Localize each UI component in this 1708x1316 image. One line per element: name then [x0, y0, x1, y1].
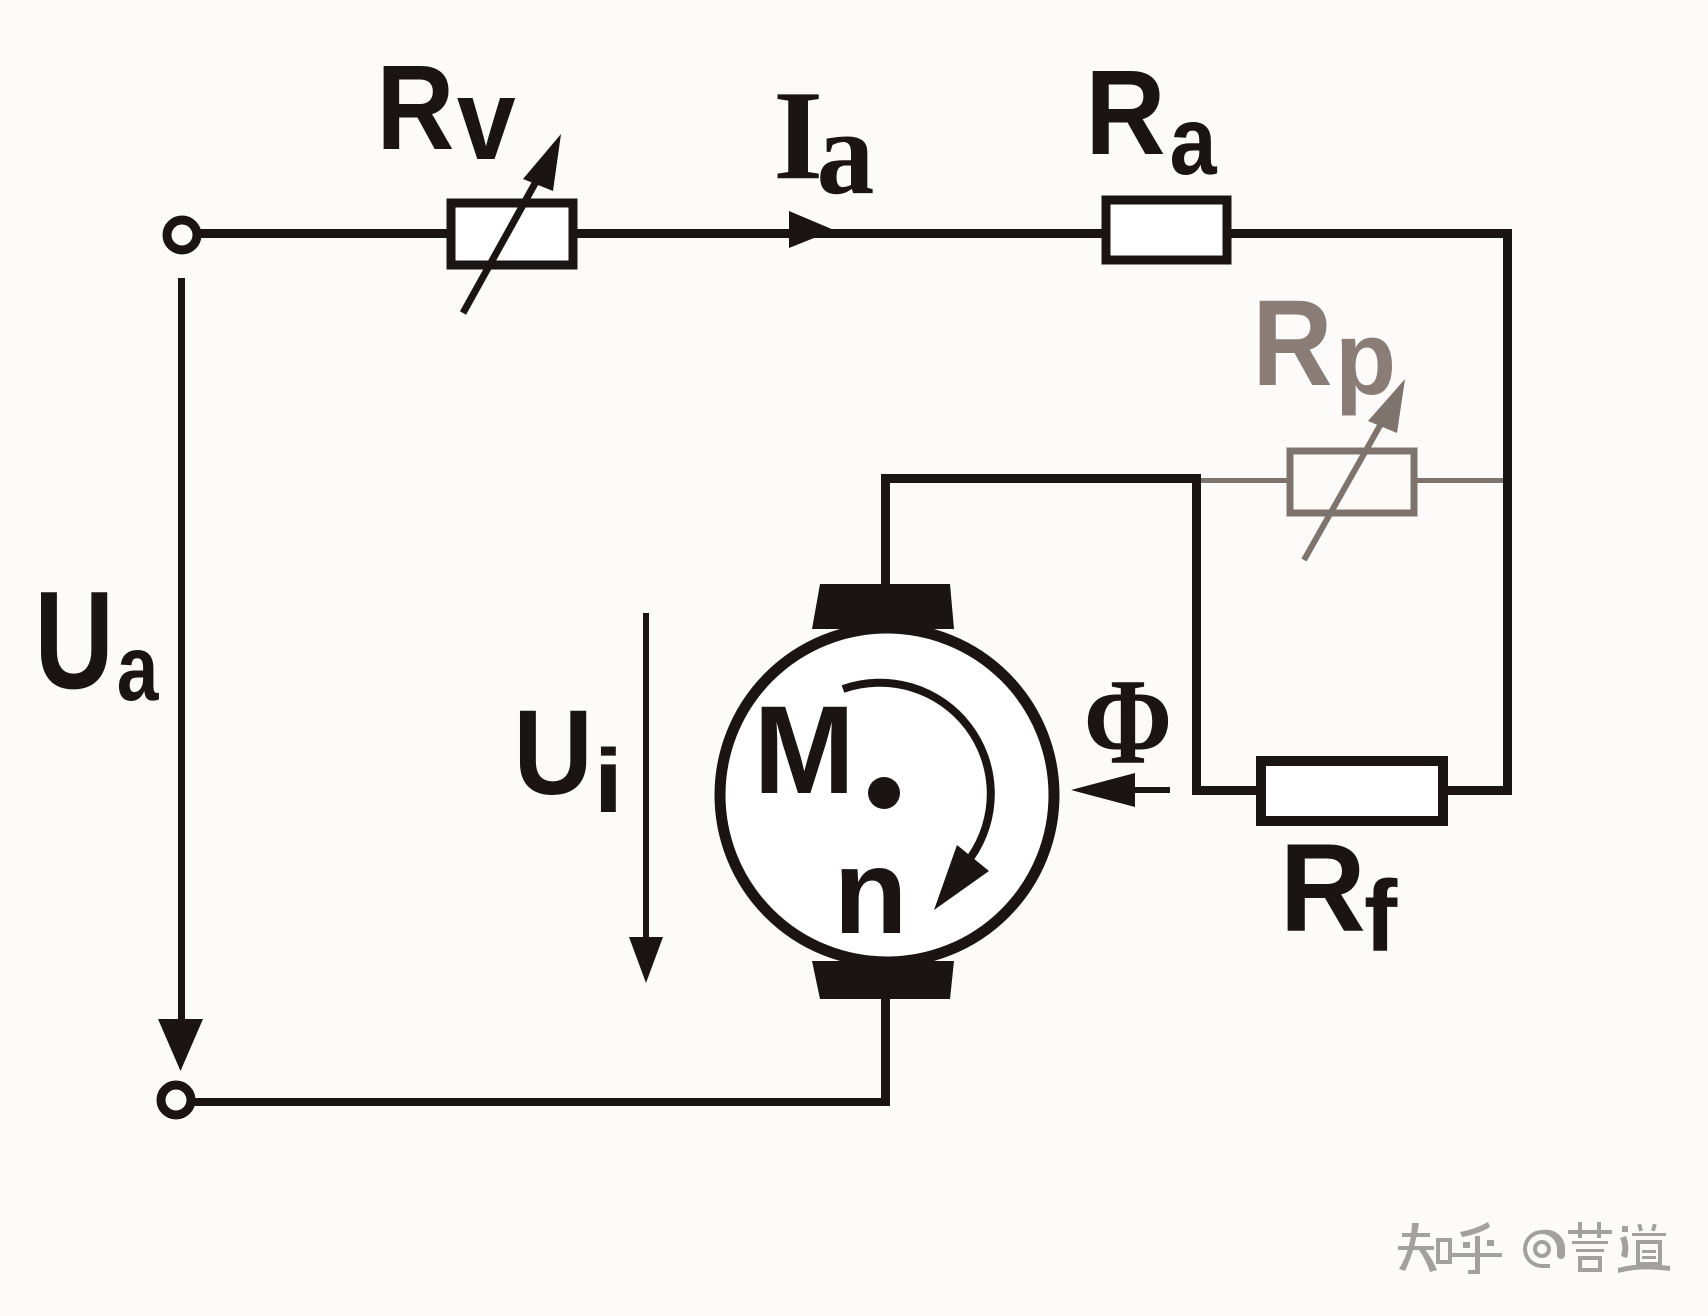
Rp wiper arrow shaft gray — [1304, 422, 1382, 560]
resistor Rf body — [1261, 761, 1443, 821]
wire: Rf left terminal horizontal — [1192, 786, 1256, 795]
svg-text:R: R — [1252, 274, 1332, 411]
char zhi: left shi radical — [1402, 1233, 1430, 1237]
wire: motor top horizontal to field node — [881, 474, 1201, 483]
Ui arrow line — [643, 613, 649, 943]
svg-text:Φ: Φ — [1084, 653, 1173, 790]
wire: Rp left gray — [1201, 478, 1290, 483]
wire: field node vertical down to Rf left — [1192, 474, 1201, 791]
terminal top-left — [167, 220, 197, 250]
terminal bottom-left — [161, 1085, 191, 1115]
wire: left vertical Ua line — [178, 278, 185, 1021]
at sign — [1523, 1230, 1565, 1268]
rotation arc — [843, 683, 991, 857]
svg-text:U: U — [34, 562, 114, 718]
char pu: body — [1572, 1241, 1608, 1244]
char dao: walk radical — [1622, 1226, 1628, 1232]
wire: Ra to top-right corner — [1231, 229, 1512, 238]
char zhi: right kou box — [1436, 1238, 1452, 1264]
char pu: grass radical — [1568, 1230, 1612, 1234]
svg-text:f: f — [1364, 860, 1398, 973]
wire: motor top vertical — [881, 474, 890, 586]
Phi arrowhead — [1071, 773, 1135, 807]
svg-text:n: n — [834, 823, 908, 959]
svg-text:R: R — [1280, 818, 1366, 958]
svg-text:a: a — [817, 85, 875, 220]
resistor Rp (variable, gray) body — [1290, 451, 1414, 513]
wire: Rf right terminal to right vertical — [1448, 786, 1508, 795]
arrowhead of Ua at bottom of left wire — [158, 1019, 203, 1071]
Rv wiper arrow shaft — [463, 178, 538, 313]
arrowhead of Ia current on top wire — [789, 211, 834, 248]
motor brush block top — [812, 584, 954, 629]
wire: bottom horizontal to left bottom terminal — [194, 1098, 890, 1106]
svg-text:v: v — [457, 56, 516, 184]
wire: Rv to Ra — [577, 229, 1102, 238]
svg-text:i: i — [593, 731, 623, 831]
motor M: stator circle — [720, 628, 1054, 962]
wire: right vertical from top corner down to Rf level — [1503, 229, 1512, 795]
motor brush block bottom — [812, 961, 954, 999]
resistor Rv (variable) body — [451, 203, 573, 265]
char dao: shou top — [1637, 1224, 1643, 1232]
Phi arrow tail — [1133, 787, 1170, 793]
resistor Ra body — [1106, 200, 1227, 260]
wire: motor bottom vertical — [881, 996, 890, 1102]
svg-text:a: a — [1170, 88, 1218, 195]
char hu — [1460, 1222, 1490, 1237]
svg-text:M: M — [754, 681, 855, 821]
Ui arrowhead — [629, 937, 663, 983]
svg-text:U: U — [513, 687, 593, 820]
Rp wiper arrowhead gray — [1368, 379, 1405, 433]
wire: top horizontal from left terminal to Rv — [199, 229, 447, 238]
Rv wiper arrowhead — [523, 134, 561, 191]
svg-text:a: a — [117, 616, 160, 719]
watermark: 知乎 @菩道 drawn as paths — [1398, 1222, 1670, 1274]
shaft center dot — [868, 777, 900, 809]
wire: Rp right gray — [1414, 478, 1503, 483]
svg-text:R: R — [376, 41, 454, 176]
svg-text:p: p — [1335, 300, 1396, 416]
rotation arrowhead — [934, 845, 989, 910]
svg-text:R: R — [1085, 45, 1165, 180]
